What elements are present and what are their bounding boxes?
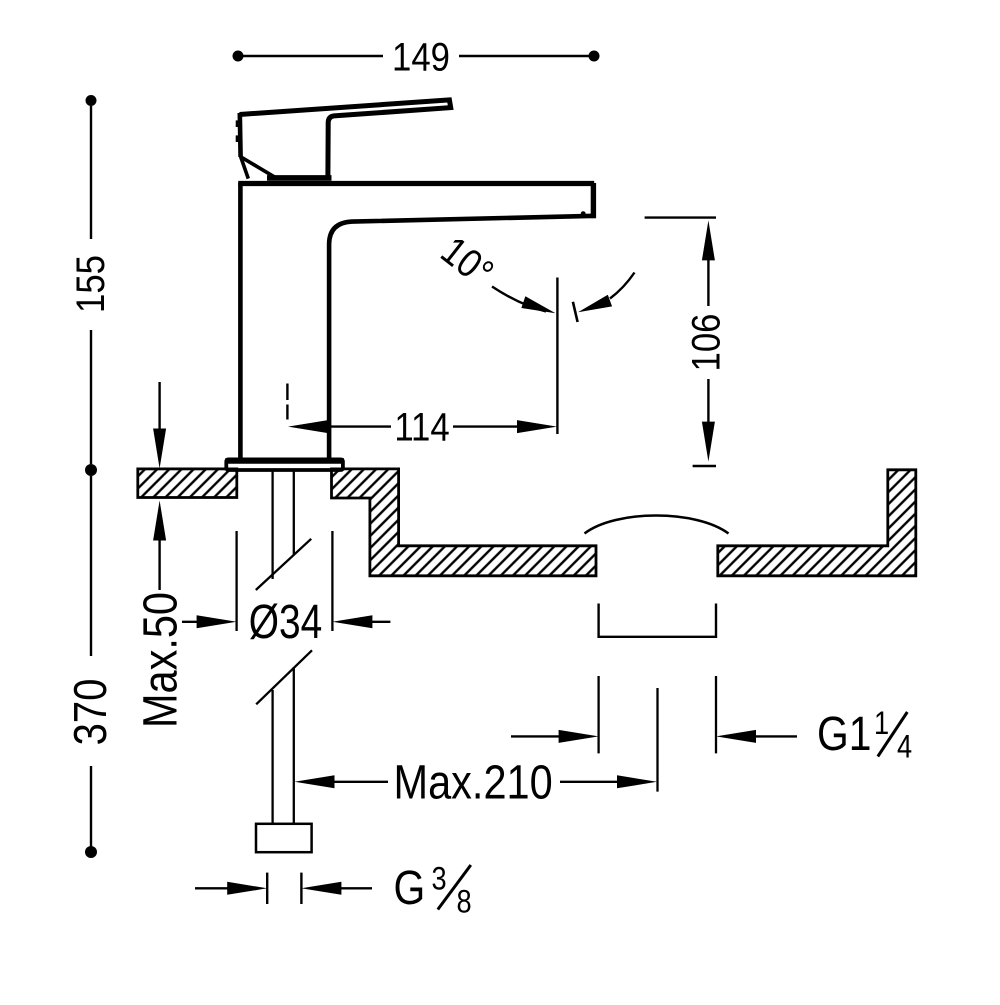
supply pipe [273,470,294,824]
svg-text:Max.50: Max.50 [133,592,188,728]
basin bottom arc [585,516,729,534]
angle 10 degrees annotation [433,227,634,434]
svg-text:4: 4 [897,729,912,765]
dimension Max.50 [133,382,188,728]
countertop left slab (hatched) [138,469,237,498]
svg-text:114: 114 [394,404,449,449]
dimension G 3/8 [195,861,472,920]
countertop middle Z section (hatched) [332,469,597,576]
faucet base plate [225,459,344,470]
dimension Max.210 [295,688,658,809]
dimension Ø34 [182,531,390,649]
faucet body and spout [238,183,596,459]
svg-text:3: 3 [432,861,447,897]
svg-text:149: 149 [392,34,450,79]
countertop right section (hatched) [718,470,916,576]
svg-text:8: 8 [457,884,472,920]
svg-text:Ø34: Ø34 [249,595,322,649]
dimension 114 [287,384,557,450]
svg-text:Max.210: Max.210 [394,755,553,810]
svg-text:1: 1 [874,706,889,742]
faucet handle lever [236,100,451,179]
dimension G1 1/4 [511,676,912,765]
dimension 149 top [233,34,600,79]
svg-text:370: 370 [65,679,116,746]
svg-text:G: G [394,862,426,915]
dimension 370 left lower [65,476,116,858]
svg-text:106: 106 [683,314,728,372]
supply nut [256,824,312,852]
drain tailpiece U [599,604,716,637]
svg-text:155: 155 [68,255,113,313]
dimension 106 [645,218,728,466]
pipe break marks [256,539,312,705]
svg-text:G1: G1 [817,708,871,761]
dimension 155 left [68,95,113,476]
